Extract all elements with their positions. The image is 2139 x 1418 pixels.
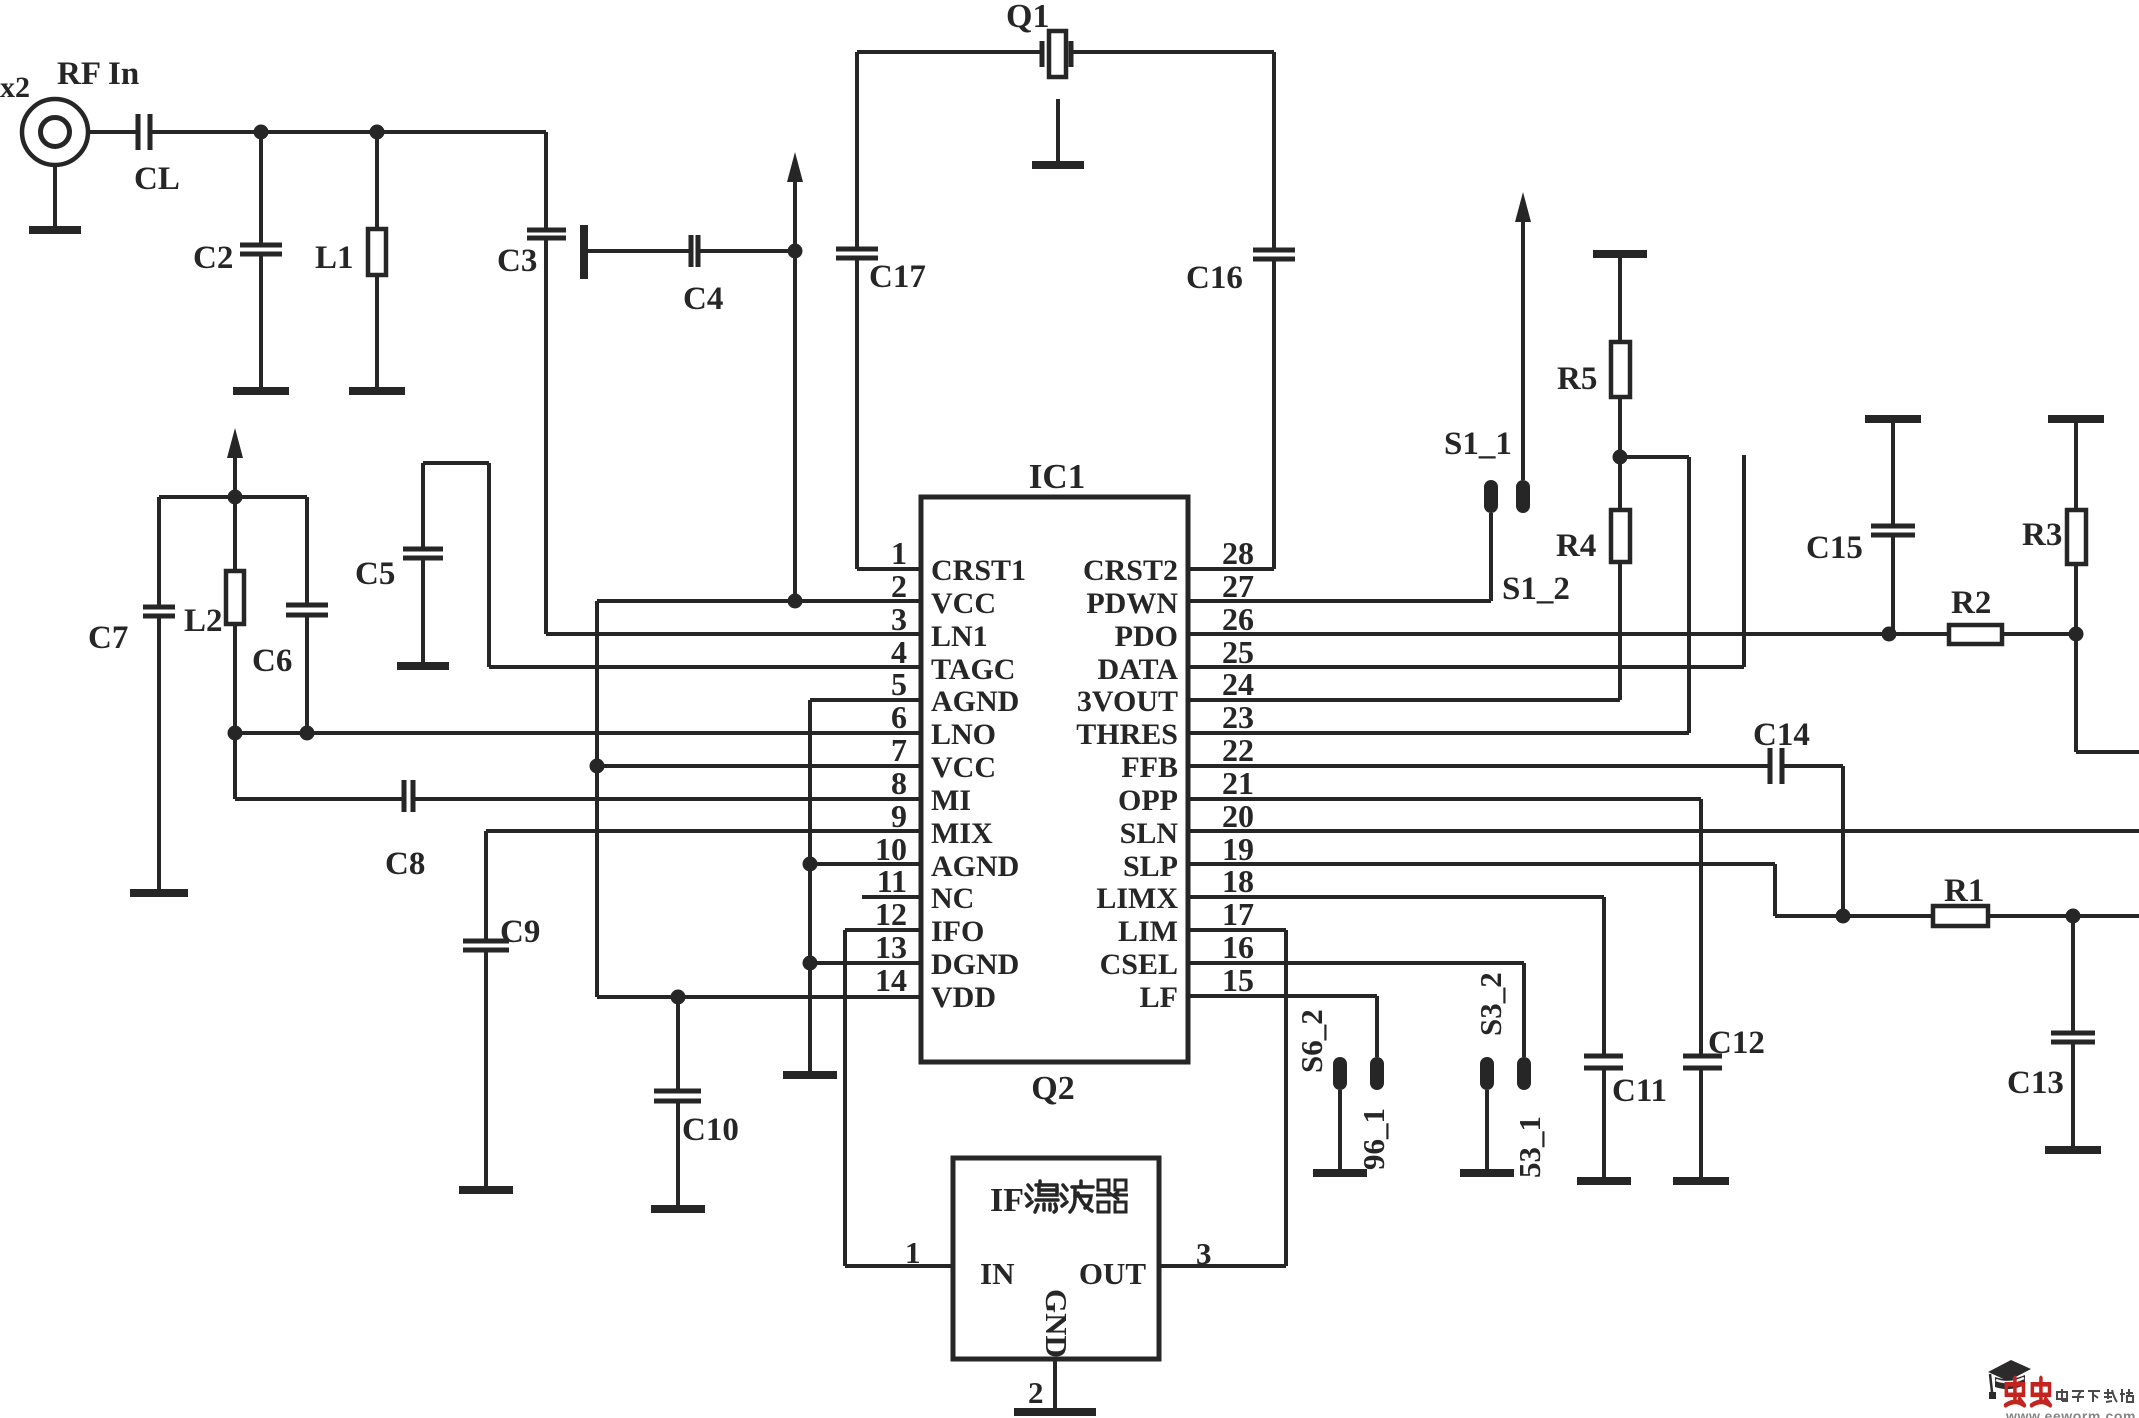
capacitor C9 [463, 831, 540, 1190]
svg-text:LNO: LNO [931, 718, 996, 751]
pin 5 number/label [891, 666, 1019, 718]
wire C3 to pin 3 LN1 [544, 238, 548, 634]
svg-text:VCC: VCC [931, 751, 996, 784]
svg-text:L2: L2 [184, 603, 223, 639]
svg-text:53_1: 53_1 [1512, 1116, 1547, 1178]
svg-text:R1: R1 [1944, 873, 1984, 909]
power arrow (L2 node) [233, 450, 237, 497]
wire pin 21 OPP line [1188, 797, 1701, 801]
wire pin 6 LNO line [235, 731, 921, 735]
capacitor C6 [252, 497, 328, 733]
svg-text:2: 2 [891, 568, 907, 604]
svg-text:R5: R5 [1557, 361, 1597, 397]
wire C8 left segment [235, 797, 404, 801]
ground (IF filter) [1014, 1408, 1096, 1416]
wire C8 to pin 8 MI [413, 797, 921, 801]
svg-text:15: 15 [1222, 962, 1254, 998]
svg-text:C4: C4 [683, 281, 723, 317]
ground (C9) [459, 1186, 513, 1194]
svg-text:1: 1 [905, 1235, 921, 1270]
svg-text:C16: C16 [1186, 260, 1243, 296]
pin 19 number/label [1123, 831, 1254, 883]
svg-text:GND: GND [1039, 1289, 1074, 1358]
power arrow VCC (center) [793, 174, 797, 601]
wire RF node line [150, 130, 546, 134]
svg-text:DGND: DGND [931, 948, 1019, 981]
svg-text:96_1: 96_1 [1356, 1108, 1391, 1170]
svg-text:AGND: AGND [931, 850, 1019, 883]
wire C7-L2-C6 top [159, 495, 307, 499]
pin 1 number/label [891, 535, 1026, 587]
node R4/R5 junction [1613, 450, 1628, 465]
node C15 / PDO junction [1882, 627, 1897, 642]
pin 8 number/label [891, 765, 971, 817]
wire pin 1 CRST1 line [857, 567, 921, 571]
svg-text:www.eeworm.com: www.eeworm.com [2005, 1408, 2136, 1418]
svg-text:C5: C5 [355, 556, 395, 592]
svg-text:OUT: OUT [1079, 1256, 1147, 1291]
svg-text:R3: R3 [2022, 517, 2062, 553]
wire pin 22 FFB line [1188, 764, 1770, 768]
pin 27 number/label [1086, 568, 1254, 620]
pin 11 number/label [877, 863, 975, 915]
svg-text:C17: C17 [869, 259, 926, 295]
wire R3 bottom [2074, 564, 2078, 752]
svg-text:14: 14 [875, 962, 907, 998]
node RF junction at C2 [254, 125, 269, 140]
ground (C10) [651, 1205, 705, 1213]
ground (S3) [1460, 1169, 1514, 1177]
pin 13 number/label [875, 929, 1019, 981]
wire C4 to VCC rail [698, 249, 795, 253]
svg-text:LIMX: LIMX [1096, 882, 1178, 915]
svg-text:18: 18 [1222, 863, 1254, 899]
wire VCC rail vertical [595, 601, 599, 997]
watermark logo (graduation cap) [1988, 1360, 2031, 1399]
svg-text:PDWN: PDWN [1086, 587, 1178, 620]
svg-text:12: 12 [875, 896, 907, 932]
wire pin 20 SLN line [1188, 829, 2139, 833]
svg-text:IF: IF [990, 1182, 1024, 1219]
svg-text:CSEL: CSEL [1100, 948, 1178, 981]
svg-text:CL: CL [134, 161, 180, 197]
wire pin 4 TAGC line [489, 665, 921, 669]
svg-text:LN1: LN1 [931, 620, 988, 653]
capacitor C17 [836, 52, 926, 569]
wire electrode to C4 [584, 249, 691, 253]
resistor R1 [1933, 873, 1988, 926]
svg-text:16: 16 [1222, 929, 1254, 965]
svg-text:21: 21 [1222, 765, 1254, 801]
svg-text:9: 9 [891, 798, 907, 834]
pin 6 number/label [891, 699, 996, 751]
ground (RF connector) [29, 226, 81, 234]
node RF junction at L1 [370, 125, 385, 140]
wire C14 to R1 line [1782, 764, 1843, 768]
pin 9 number/label [891, 798, 993, 850]
capacitor C4 [683, 235, 723, 317]
svg-text:3: 3 [1196, 1236, 1212, 1271]
svg-text:C9: C9 [500, 914, 540, 950]
pin 2 number/label [891, 568, 996, 620]
capacitor C10 [654, 997, 739, 1209]
node L2/LNO junction [228, 726, 243, 741]
ground (R5 top) [1593, 250, 1647, 258]
svg-text:C6: C6 [252, 643, 292, 679]
svg-text:L1: L1 [315, 240, 354, 276]
svg-text:C10: C10 [682, 1112, 739, 1148]
capacitor C2 [193, 132, 282, 391]
svg-text:6: 6 [891, 699, 907, 735]
wire pin 19 SLP line [1188, 862, 1775, 866]
svg-text:C7: C7 [88, 620, 128, 656]
svg-text:S6_2: S6_2 [1294, 1009, 1329, 1073]
svg-text:5: 5 [891, 666, 907, 702]
wire pin 15 LF line [1188, 994, 1377, 998]
wire pin 23 THRES line [1188, 731, 1689, 735]
wire R1 right [1988, 914, 2139, 918]
watermark 虫虫 [2006, 1378, 2025, 1405]
svg-text:13: 13 [875, 929, 907, 965]
wire pin 2 VCC line [597, 599, 921, 603]
capacitor C13 [2007, 916, 2095, 1150]
svg-text:C11: C11 [1612, 1073, 1667, 1109]
watermark 电子下载站 [2057, 1389, 2068, 1401]
electrode plate (C4 input) [580, 225, 588, 279]
svg-text:10: 10 [875, 831, 907, 867]
wire pin 5 AGND line [810, 698, 921, 702]
capacitor C11 [1584, 897, 1667, 1181]
svg-text:PDO: PDO [1115, 620, 1178, 653]
svg-text:C12: C12 [1708, 1025, 1765, 1061]
svg-text:RF In: RF In [57, 56, 139, 92]
svg-text:SLP: SLP [1123, 850, 1178, 883]
svg-text:OPP: OPP [1118, 784, 1178, 817]
wire RF input line [88, 130, 138, 134]
ground (C2) [233, 387, 289, 395]
wire pin 10 AGND line [810, 862, 921, 866]
pin 16 number/label [1100, 929, 1254, 981]
svg-text:R4: R4 [1556, 528, 1596, 564]
capacitor C16 [1186, 52, 1295, 569]
node C4/VCC junction [788, 244, 803, 259]
svg-text:CRST2: CRST2 [1083, 554, 1178, 587]
svg-text:C15: C15 [1806, 530, 1863, 566]
svg-text:AGND: AGND [931, 685, 1019, 718]
svg-text:TAGC: TAGC [931, 653, 1015, 686]
svg-text:17: 17 [1222, 896, 1254, 932]
ground (C5) [397, 662, 449, 670]
svg-text:DATA: DATA [1097, 653, 1178, 686]
pin 20 number/label [1120, 798, 1254, 850]
wire R1 line left [1775, 914, 1933, 918]
switch S3 (S3_2 / 53_1) [1473, 963, 1547, 1178]
wire pin 27 PDWN line [1188, 599, 1491, 603]
svg-text:R2: R2 [1951, 585, 1991, 621]
svg-text:26: 26 [1222, 601, 1254, 637]
op-amp U IC1 body [921, 457, 1188, 1107]
svg-text:LIM: LIM [1118, 915, 1178, 948]
wire pin 26 PDO line [1188, 632, 1949, 636]
wire pin 14 VDD line [597, 995, 921, 999]
capacitor C14 [1753, 717, 1810, 784]
resistor R2 [1949, 585, 2002, 644]
svg-text:Q2: Q2 [1031, 1070, 1074, 1107]
ground (L1) [349, 387, 405, 395]
capacitor C3 [497, 132, 566, 279]
wire IF filter pin 2 GND [1028, 1359, 1055, 1412]
pin 10 number/label [875, 831, 1019, 883]
inductor L1 [315, 132, 386, 391]
node AGND rail / pin 13 [803, 956, 818, 971]
svg-text:8: 8 [891, 765, 907, 801]
pin 18 number/label [1096, 863, 1254, 915]
IF filter block [953, 1158, 1159, 1359]
svg-text:C13: C13 [2007, 1065, 2064, 1101]
svg-text:S1_2: S1_2 [1502, 571, 1570, 607]
node C6/LNO junction [300, 726, 315, 741]
pin 3 number/label [891, 601, 988, 653]
svg-text:19: 19 [1222, 831, 1254, 867]
pin 21 number/label [1118, 765, 1254, 817]
svg-text:x2: x2 [0, 71, 30, 104]
wire THRES riser to R4/R5 node [1687, 457, 1691, 733]
svg-text:11: 11 [877, 863, 907, 899]
wire pin 28 CRST2 line [1188, 567, 1274, 571]
inductor L2 [184, 497, 244, 733]
svg-text:3: 3 [891, 601, 907, 637]
pin 7 number/label [891, 732, 996, 784]
node AGND rail / pin 10 [803, 857, 818, 872]
node VCC rail / pin 7 [590, 759, 605, 774]
pin 28 number/label [1083, 535, 1254, 587]
svg-text:IN: IN [980, 1256, 1014, 1291]
wire AGND rail vertical [808, 700, 812, 1075]
node VDD / C10 junction [671, 990, 686, 1005]
wire R4 bottom to 3VOUT [1618, 562, 1622, 700]
svg-text:20: 20 [1222, 798, 1254, 834]
ground (C12) [1673, 1177, 1729, 1185]
wire pin 13 DGND line [810, 961, 921, 965]
svg-text:SLN: SLN [1120, 817, 1179, 850]
ground (AGND rail) [783, 1071, 837, 1079]
node VCC arrow to pin 2 [788, 594, 803, 609]
pin 26 number/label [1115, 601, 1254, 653]
connector X2 RF In [0, 56, 139, 230]
svg-text:VDD: VDD [931, 981, 996, 1014]
svg-text:S3_2: S3_2 [1473, 972, 1508, 1036]
svg-text:MI: MI [931, 784, 971, 817]
node R2/R3 junction [2069, 627, 2084, 642]
pin 14 number/label [875, 962, 996, 1014]
wire R5 to R4 [1618, 397, 1622, 510]
svg-text:23: 23 [1222, 699, 1254, 735]
wire pin 17 LIM line [1188, 928, 1286, 932]
svg-text:IFO: IFO [931, 915, 984, 948]
wire R2 to R3 node [2002, 632, 2076, 636]
svg-text:25: 25 [1222, 634, 1254, 670]
svg-text:27: 27 [1222, 568, 1254, 604]
svg-text:LF: LF [1140, 981, 1178, 1014]
capacitor C5 [355, 463, 443, 663]
svg-text:Q1: Q1 [1006, 0, 1049, 35]
wire IF filter pin 3 [1159, 1236, 1286, 1271]
svg-text:24: 24 [1222, 666, 1254, 702]
svg-text:S1_1: S1_1 [1444, 426, 1512, 462]
svg-text:IC1: IC1 [1029, 457, 1085, 496]
svg-text:2: 2 [1028, 1375, 1044, 1410]
pin 17 number/label [1118, 896, 1254, 948]
capacitor C12 [1683, 799, 1765, 1181]
wire pin 9 MIX line [486, 829, 921, 833]
pin 23 number/label [1076, 699, 1254, 751]
wire pin 24 3VOUT line [1188, 698, 1620, 702]
switch S1 (S1_1 / S1_2) [1444, 192, 1570, 607]
svg-text:4: 4 [891, 634, 907, 670]
svg-text:NC: NC [931, 882, 974, 915]
svg-text:MIX: MIX [931, 817, 993, 850]
svg-text:7: 7 [891, 732, 907, 768]
ground (C15 top) [1865, 415, 1921, 423]
capacitor C15 [1806, 419, 1915, 634]
svg-text:CRST1: CRST1 [931, 554, 1026, 587]
svg-text:1: 1 [891, 535, 907, 571]
capacitor CL [134, 114, 180, 197]
node C14/R1 junction [1836, 909, 1851, 924]
crystal Q1 [857, 0, 1274, 77]
ground (R3 top) [2048, 415, 2104, 423]
ground (C7) [130, 889, 188, 897]
wire C5 top loop [423, 461, 489, 465]
pin 4 number/label [891, 634, 1015, 686]
capacitor C7 [88, 497, 175, 893]
wire pin 11 NC stub [862, 895, 921, 899]
resistor R4 [1556, 510, 1630, 564]
svg-text:C14: C14 [1753, 717, 1810, 753]
wire pin 12 IFO line [845, 928, 921, 932]
switch S6 (S6_2 / 96_1) [1294, 996, 1391, 1173]
pin 22 number/label [1121, 732, 1254, 784]
resistor R5 [1557, 254, 1630, 397]
ground (C13) [2045, 1146, 2101, 1154]
svg-text:3VOUT: 3VOUT [1077, 685, 1178, 718]
pin 24 number/label [1077, 666, 1254, 718]
svg-text:FFB: FFB [1121, 751, 1178, 784]
label IF滤波器 (CJK drawn) [1026, 1181, 1058, 1212]
wire pin 25 DATA line [1188, 665, 1744, 669]
svg-text:28: 28 [1222, 535, 1254, 571]
ground (Q1 case) [1032, 99, 1084, 165]
node L2 top junction [228, 490, 243, 505]
pin 12 number/label [875, 896, 984, 948]
node R1/C13 junction [2066, 909, 2081, 924]
wire L2 node down to C8 line [233, 733, 237, 799]
svg-text:C3: C3 [497, 243, 537, 279]
svg-text:C8: C8 [385, 846, 425, 882]
capacitor C8 [385, 780, 425, 882]
ground (C11) [1577, 1177, 1631, 1185]
wire pin 7 VCC line [597, 764, 921, 768]
svg-text:THRES: THRES [1076, 718, 1178, 751]
wire pin 16 CSEL line [1188, 961, 1524, 965]
pin 15 number/label [1140, 962, 1254, 1014]
svg-text:VCC: VCC [931, 587, 996, 620]
svg-text:22: 22 [1222, 732, 1254, 768]
wire pin 18 LIMX line [1188, 895, 1604, 899]
resistor R3 [2022, 419, 2086, 564]
pin 25 number/label [1097, 634, 1254, 686]
svg-text:C2: C2 [193, 240, 233, 276]
ground (S6) [1313, 1169, 1367, 1177]
wire DATA riser [1742, 455, 1746, 667]
